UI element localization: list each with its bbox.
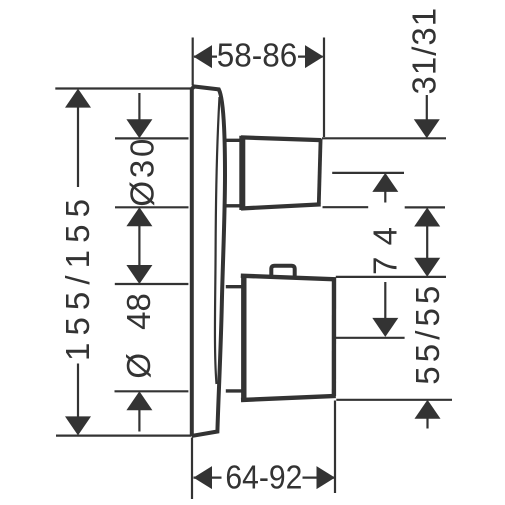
svg-text:31/31: 31/31 — [406, 8, 443, 95]
svg-text:64-92: 64-92 — [225, 459, 302, 496]
svg-text:58-86: 58-86 — [217, 37, 298, 74]
svg-text:55/55: 55/55 — [409, 286, 446, 385]
svg-text:Ø30: Ø30 — [123, 139, 160, 207]
svg-text:48: 48 — [120, 293, 157, 330]
svg-text:Ø: Ø — [120, 353, 157, 379]
